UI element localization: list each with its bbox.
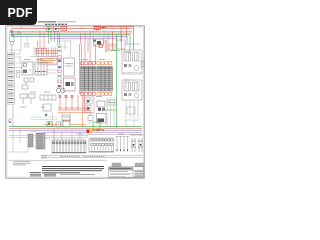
- wire pink pair x105: [105, 40, 107, 52]
- border frame outer: [6, 26, 145, 178]
- wires from X0 to center: [15, 57, 22, 72]
- wire gray risers: [107, 98, 114, 127]
- wire red drop x95.5: [95, 44, 97, 64]
- aux box top right: [109, 40, 140, 54]
- red jumper heads: [59, 96, 73, 98]
- green tick Q1: [13, 35, 15, 37]
- green dot middle: [45, 114, 47, 116]
- title block: [109, 167, 144, 178]
- hatched stamp: [13, 162, 30, 165]
- red jumpers middle: [58, 95, 90, 110]
- starter group M1: [122, 50, 142, 74]
- bus N blue: [11, 37, 127, 44]
- left sensor B1: [9, 94, 35, 127]
- wire red drop x44: [43, 33, 45, 48]
- violet drop x88: [87, 39, 89, 52]
- faint links middle: [30, 117, 58, 120]
- contactor KM1: [97, 101, 107, 123]
- frame edge symbol right: [141, 61, 144, 67]
- bus lower orange: [44, 124, 86, 126]
- wire red drop x108: [107, 33, 109, 52]
- scattered labels: [20, 52, 130, 134]
- aux switches S1: [46, 27, 59, 45]
- terminal row above table1 (red cells): [81, 62, 96, 65]
- wire red drop x121: [120, 27, 122, 43]
- M2 tail wiring: [124, 100, 140, 127]
- bus aux violet: [50, 38, 118, 40]
- PDF badge: [0, 0, 37, 25]
- incomer knot: [10, 30, 13, 34]
- wire gray mid top: [63, 41, 71, 57]
- drops to lower bus: [53, 113, 71, 127]
- vertical hatch left of rails: [42, 155, 46, 160]
- junction box mid: [62, 115, 70, 121]
- sheet title text: [38, 21, 76, 23]
- bus L2 red: [11, 32, 132, 34]
- relay box A3b (magenta): [64, 78, 76, 91]
- orange riser x82.5: [82, 95, 84, 127]
- bus lower violet: [44, 132, 142, 134]
- incomer knot 2: [17, 32, 20, 36]
- wire gray left: [9, 35, 39, 57]
- bus lower green: [9, 126, 142, 128]
- bus lower red: [9, 128, 142, 130]
- IO table 2: [97, 67, 113, 92]
- bus top red right: [93, 27, 134, 51]
- relay symbols bottom right: [131, 138, 143, 152]
- wire red drop x85: [84, 33, 86, 62]
- lower-left wiring: [9, 129, 88, 152]
- relay box A3a: [64, 58, 75, 76]
- starter group M2: [122, 80, 142, 100]
- bus lower blue: [9, 130, 142, 132]
- terminal row below table2 (orange cells): [97, 93, 112, 96]
- green branch right: [104, 109, 117, 111]
- green highlight box: [93, 122, 100, 129]
- indicator lamps H1 H2: [56, 88, 65, 92]
- parts below A2: [88, 113, 93, 124]
- wire red pair x58: [58, 31, 60, 45]
- bus PE green: [11, 35, 130, 50]
- relay array A2 (magenta box): [85, 97, 95, 113]
- wire red drop x112.5: [112, 31, 114, 50]
- orange terminal flags on bus: [87, 129, 105, 133]
- marshalling table 2 (red rows): [38, 57, 57, 65]
- border frame inner: [7, 27, 144, 177]
- bus L1 pink: [11, 30, 132, 32]
- title block upper cells: [112, 163, 144, 166]
- drop wires with arrows: [116, 136, 130, 150]
- small parts below A1: [22, 78, 34, 89]
- terminal row below table1 (red cells): [81, 93, 96, 96]
- terminal cell strip: [58, 45, 62, 88]
- dots row under A1b: [36, 71, 47, 73]
- green drop into M1: [121, 35, 123, 50]
- connector bracket: [16, 71, 20, 78]
- orange link middle: [58, 112, 92, 114]
- wire red drop x40: [39, 31, 41, 48]
- arrowheads: [116, 150, 128, 153]
- small text columns bottom left: [30, 173, 56, 176]
- PE riser green: [116, 35, 118, 128]
- wire red pair x80: [80, 33, 82, 94]
- bus lower gray: [86, 134, 143, 136]
- wire red drop x90: [89, 31, 91, 64]
- terminal row TB1: [35, 48, 58, 57]
- orange tick table: [37, 41, 39, 48]
- IO table 1: [81, 67, 97, 92]
- terminal list text ticks: [8, 54, 13, 102]
- tiny number rows: [60, 156, 105, 158]
- wire A1a-A1b: [33, 64, 35, 66]
- note paragraph: [42, 167, 104, 175]
- terminal row above table2 (orange cells): [97, 62, 112, 65]
- red cell below U1: [99, 45, 102, 48]
- terminal list X0 (left column boxes): [7, 53, 15, 105]
- zone reference ticks: [20, 26, 141, 28]
- PLC module U1: [93, 26, 106, 47]
- red module top mid: [61, 26, 67, 30]
- long rails bottom: [9, 155, 143, 160]
- sensor row right of KM1: [108, 100, 117, 105]
- relay labels: [131, 134, 144, 136]
- bus devices: [47, 120, 70, 127]
- terminal strip X1: [47, 138, 87, 154]
- controller box A1b: [35, 62, 47, 75]
- controller box A1a: [22, 62, 33, 75]
- wire red drop x126.5: [126, 27, 128, 39]
- connector strip middle: [40, 95, 56, 111]
- sheet ref text top: [45, 23, 67, 25]
- terminal strip X2 circles: [89, 138, 114, 152]
- svg-text:PDF: PDF: [8, 6, 33, 20]
- bus L0 red top: [11, 28, 132, 30]
- gray hline y41: [57, 40, 72, 42]
- wire segs center: [47, 62, 64, 95]
- breaker Q1: [10, 35, 14, 53]
- connector CN1 hatch: [28, 133, 45, 149]
